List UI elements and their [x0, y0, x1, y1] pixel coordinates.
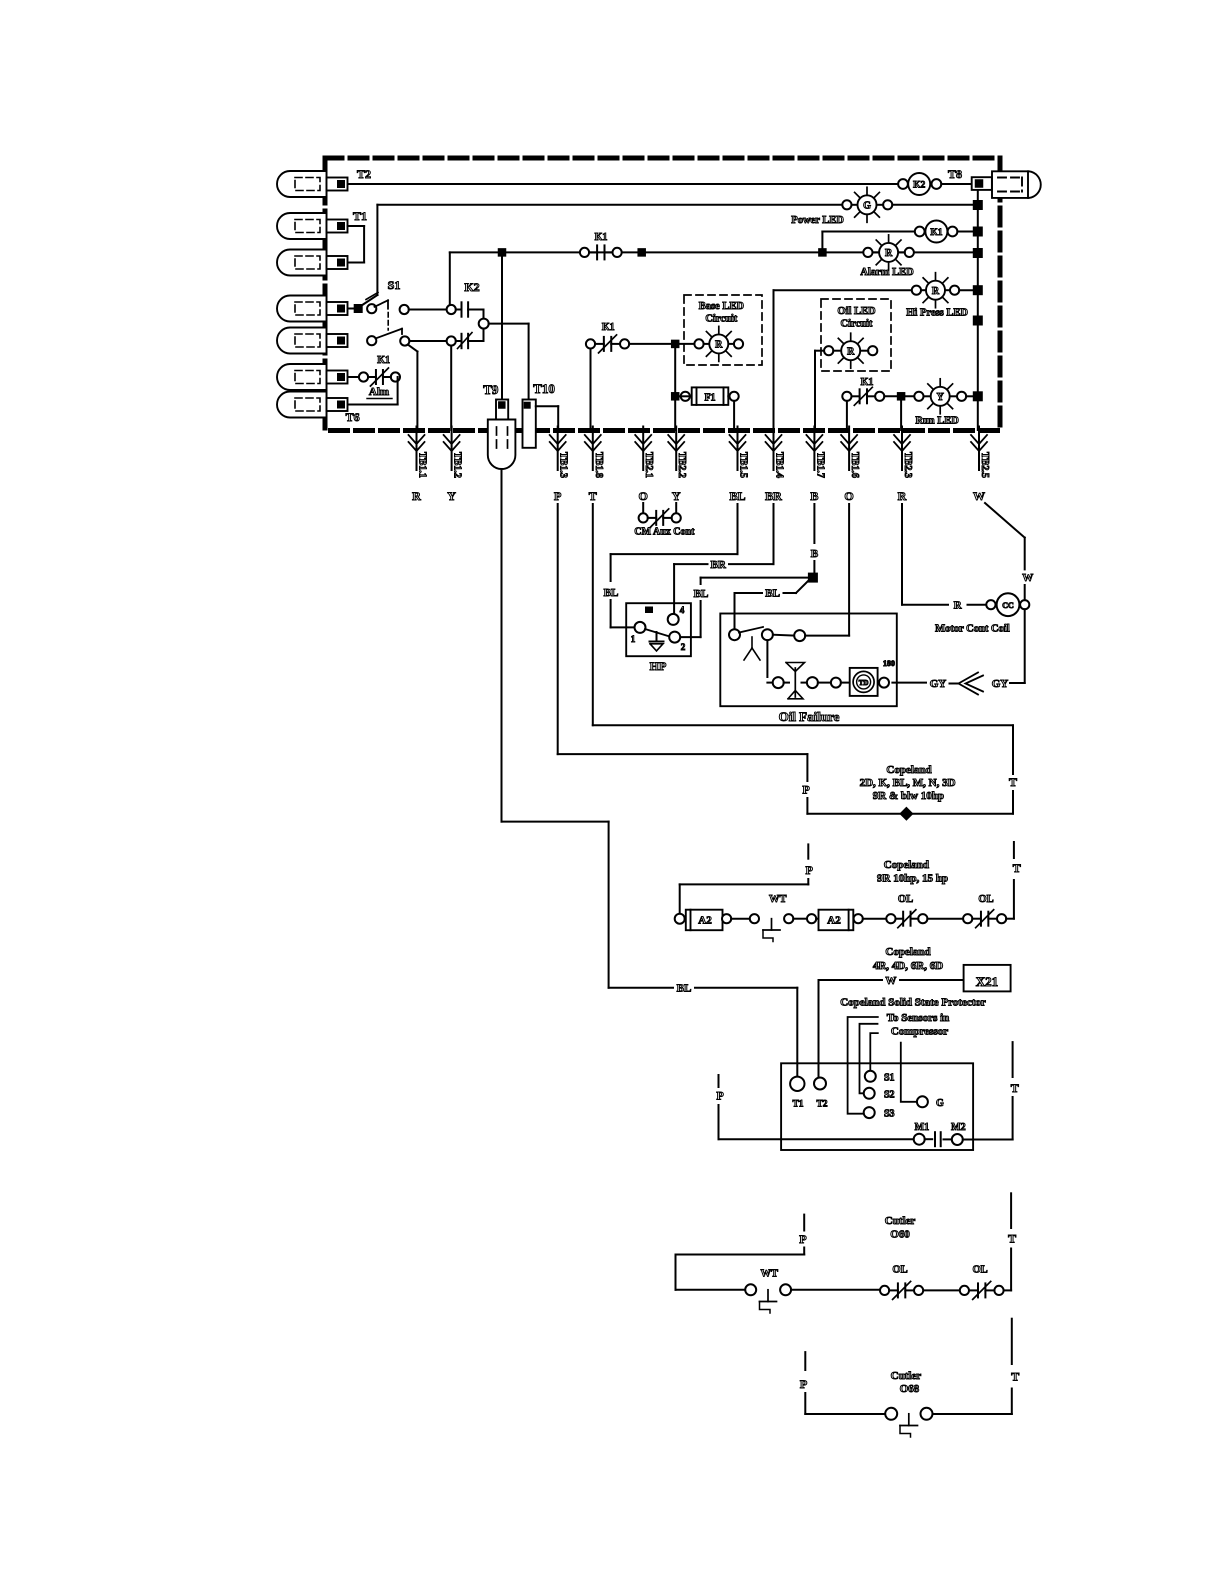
svg-text:A2: A2	[698, 915, 712, 927]
svg-text:Y: Y	[937, 392, 945, 403]
svg-text:Circuit: Circuit	[841, 319, 873, 330]
svg-text:BR: BR	[765, 489, 782, 503]
svg-text:A2: A2	[827, 915, 841, 927]
svg-text:TB2.3: TB2.3	[902, 452, 913, 478]
svg-text:Circuit: Circuit	[705, 314, 737, 325]
svg-text:T9: T9	[483, 382, 499, 397]
svg-text:T6: T6	[346, 410, 360, 424]
svg-text:BL: BL	[729, 489, 745, 503]
svg-text:BL: BL	[677, 983, 692, 995]
svg-text:R: R	[715, 340, 723, 351]
svg-text:Alm: Alm	[369, 386, 389, 398]
svg-text:O: O	[844, 489, 853, 503]
svg-text:R: R	[412, 489, 421, 503]
svg-text:TB1.8: TB1.8	[593, 452, 604, 478]
svg-text:Oil Failure: Oil Failure	[779, 709, 840, 724]
svg-text:Base LED: Base LED	[699, 301, 745, 312]
svg-text:K1: K1	[930, 228, 942, 238]
svg-text:K2: K2	[464, 280, 479, 294]
svg-text:T2: T2	[816, 1100, 827, 1110]
svg-text:M1: M1	[915, 1122, 929, 1133]
svg-text:K1: K1	[377, 355, 390, 366]
svg-text:T: T	[1013, 861, 1021, 875]
svg-text:To Sensors in: To Sensors in	[887, 1012, 950, 1024]
svg-text:X21: X21	[976, 974, 998, 989]
svg-text:R: R	[885, 248, 893, 259]
svg-text:BL: BL	[765, 588, 780, 600]
svg-text:R: R	[932, 286, 940, 297]
svg-text:Hi Press LED: Hi Press LED	[906, 308, 968, 319]
svg-text:P: P	[800, 1377, 807, 1391]
svg-text:TB1.4: TB1.4	[774, 452, 785, 478]
svg-text:R: R	[898, 489, 907, 503]
svg-text:Compressor: Compressor	[891, 1026, 948, 1038]
svg-text:W: W	[1022, 572, 1033, 584]
svg-text:Run LED: Run LED	[915, 416, 959, 427]
svg-text:R: R	[847, 346, 855, 357]
svg-text:9R & blw 10hp: 9R & blw 10hp	[873, 790, 944, 802]
svg-text:9R 10hp, 15 hp: 9R 10hp, 15 hp	[877, 873, 948, 885]
svg-text:W: W	[885, 975, 896, 987]
svg-text:TB1.1: TB1.1	[417, 452, 428, 478]
svg-text:Power LED: Power LED	[791, 215, 844, 226]
svg-text:WT: WT	[761, 1269, 779, 1280]
svg-text:HP: HP	[650, 659, 667, 673]
svg-text:T: T	[1008, 1232, 1016, 1246]
svg-text:Cutler: Cutler	[891, 1370, 922, 1382]
svg-text:S1: S1	[388, 278, 401, 292]
svg-text:GY: GY	[992, 678, 1009, 690]
svg-text:S2: S2	[884, 1090, 895, 1101]
svg-text:4: 4	[680, 605, 685, 615]
svg-text:O: O	[639, 489, 648, 503]
svg-text:TB2.2: TB2.2	[676, 452, 687, 478]
svg-text:TB1.7: TB1.7	[814, 452, 825, 478]
svg-text:M2: M2	[951, 1122, 965, 1133]
svg-text:S1: S1	[884, 1073, 895, 1084]
svg-text:OL: OL	[892, 1265, 907, 1276]
svg-text:T: T	[1011, 1370, 1019, 1384]
svg-text:Copeland: Copeland	[884, 859, 929, 871]
svg-text:180: 180	[883, 659, 895, 668]
svg-text:OL: OL	[898, 894, 913, 905]
svg-text:Copeland: Copeland	[886, 764, 931, 776]
svg-text:T1: T1	[792, 1100, 803, 1110]
svg-text:G: G	[936, 1098, 944, 1109]
svg-text:BL: BL	[604, 587, 619, 599]
svg-text:T: T	[589, 489, 597, 503]
svg-text:OL: OL	[973, 1265, 988, 1276]
svg-text:T8: T8	[948, 167, 962, 181]
svg-text:W: W	[973, 489, 985, 503]
svg-text:O60: O60	[890, 1229, 910, 1241]
svg-text:TB2.1: TB2.1	[643, 452, 654, 478]
svg-text:2D, K, BL, M, N, 3D: 2D, K, BL, M, N, 3D	[860, 777, 956, 789]
svg-text:TB2.5: TB2.5	[979, 452, 990, 478]
svg-text:CM Aux Cont: CM Aux Cont	[634, 527, 695, 538]
svg-text:K1: K1	[602, 322, 615, 333]
svg-text:1: 1	[631, 634, 636, 644]
svg-text:Alarm LED: Alarm LED	[860, 267, 914, 278]
svg-text:R: R	[954, 600, 963, 612]
svg-text:P: P	[799, 1232, 806, 1246]
svg-text:TB1.6: TB1.6	[849, 452, 860, 478]
svg-text:TB1.2: TB1.2	[452, 452, 463, 478]
svg-text:Y: Y	[447, 489, 456, 503]
svg-text:TD: TD	[859, 679, 869, 687]
svg-text:Copeland: Copeland	[885, 946, 930, 958]
svg-text:B: B	[811, 548, 819, 560]
svg-text:CC: CC	[1002, 601, 1014, 610]
svg-text:TB1.3: TB1.3	[558, 452, 569, 478]
svg-text:T: T	[1011, 1081, 1019, 1095]
svg-text:2: 2	[681, 642, 686, 652]
svg-text:Oil LED: Oil LED	[837, 306, 876, 317]
svg-text:OL: OL	[978, 894, 993, 905]
svg-text:T1: T1	[353, 209, 367, 223]
svg-text:S3: S3	[884, 1109, 895, 1120]
svg-text:Motor Cont Coil: Motor Cont Coil	[935, 624, 1010, 635]
svg-text:O68: O68	[900, 1383, 920, 1395]
svg-text:K1: K1	[861, 377, 874, 388]
svg-text:P: P	[802, 783, 809, 797]
svg-text:K1: K1	[595, 232, 608, 243]
svg-text:Y: Y	[672, 489, 681, 503]
svg-text:P: P	[716, 1089, 723, 1103]
svg-text:T2: T2	[357, 167, 371, 181]
svg-text:4R, 4D, 6R, 6D: 4R, 4D, 6R, 6D	[873, 960, 943, 972]
svg-text:TB1.5: TB1.5	[738, 452, 749, 478]
svg-text:BL: BL	[694, 588, 709, 600]
svg-text:P: P	[554, 489, 561, 503]
svg-text:T10: T10	[533, 381, 555, 396]
svg-text:BR: BR	[711, 559, 727, 571]
svg-text:T: T	[1009, 775, 1017, 789]
svg-text:K2: K2	[913, 180, 925, 190]
svg-text:P: P	[806, 863, 813, 877]
svg-text:F1: F1	[704, 393, 715, 404]
svg-text:Copeland Solid State Protector: Copeland Solid State Protector	[840, 997, 986, 1009]
svg-text:G: G	[863, 200, 871, 211]
svg-text:B: B	[810, 489, 818, 503]
svg-text:GY: GY	[930, 678, 947, 690]
svg-text:Cutler: Cutler	[885, 1215, 916, 1227]
svg-text:WT: WT	[769, 894, 787, 905]
